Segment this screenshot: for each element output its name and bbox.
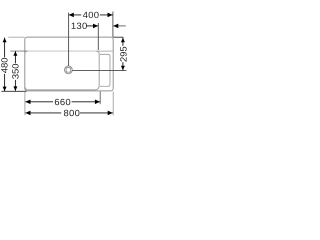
dimension 800 line — [25, 112, 113, 114]
dimension 660 right arrow — [95, 100, 100, 105]
extension line front edge left — [2, 90, 27, 92]
dimension 350 label — [11, 63, 19, 80]
bowl outline — [25, 51, 96, 53]
dimension 295 bottom arrow — [121, 66, 125, 71]
dimension 480 label — [0, 57, 8, 74]
dimension 130 line left — [86, 25, 98, 27]
dimension 350 line — [14, 51, 16, 91]
extension line below basin right — [112, 92, 114, 116]
dimension 130 right arrow — [113, 24, 118, 29]
washbasin outer outline — [25, 37, 113, 91]
dimension 800 left arrow — [25, 111, 30, 116]
extension line basin right vertical — [112, 12, 114, 38]
dimension 400 line — [69, 14, 113, 16]
dimension 400 left arrow — [69, 13, 74, 18]
extension line deck left — [10, 50, 27, 52]
dimension 480 bottom arrow — [3, 87, 7, 92]
extension line below bowl right — [99, 92, 101, 105]
dimension 130 line right — [113, 25, 126, 27]
basin back deck line — [96, 50, 113, 52]
dimension 350 top arrow — [13, 51, 17, 56]
dimension 130 label — [72, 23, 76, 29]
drain hole inner square — [66, 68, 71, 73]
dimension 800 label — [61, 109, 80, 117]
dimension 400 right arrow — [108, 13, 113, 18]
extension line drain horizontal — [72, 69, 126, 71]
dimension 350 bottom arrow — [13, 86, 17, 91]
dimension 130 left arrow — [93, 24, 98, 29]
dimension 295 label — [119, 46, 127, 62]
drain hole outer circle — [65, 66, 73, 74]
dimension 660 line — [25, 101, 100, 103]
dimension 660 left arrow — [25, 100, 30, 105]
extension line bowl right vertical — [97, 23, 99, 50]
dimension 400 label — [81, 11, 100, 19]
dimension 480 top arrow — [3, 38, 7, 43]
extension line top edge right — [113, 36, 123, 38]
dimension 800 right arrow — [108, 111, 113, 116]
bowl outline sides — [25, 51, 99, 90]
dimension 480 line — [4, 38, 6, 92]
extension line top edge left — [8, 36, 25, 38]
extension line tap hole vertical — [68, 13, 70, 66]
extension line below left — [24, 92, 26, 116]
dimension 660 label — [53, 98, 72, 106]
dimension 295 top arrow — [121, 38, 125, 43]
dimension 295 line — [122, 38, 124, 71]
right tray outline — [100, 54, 110, 86]
